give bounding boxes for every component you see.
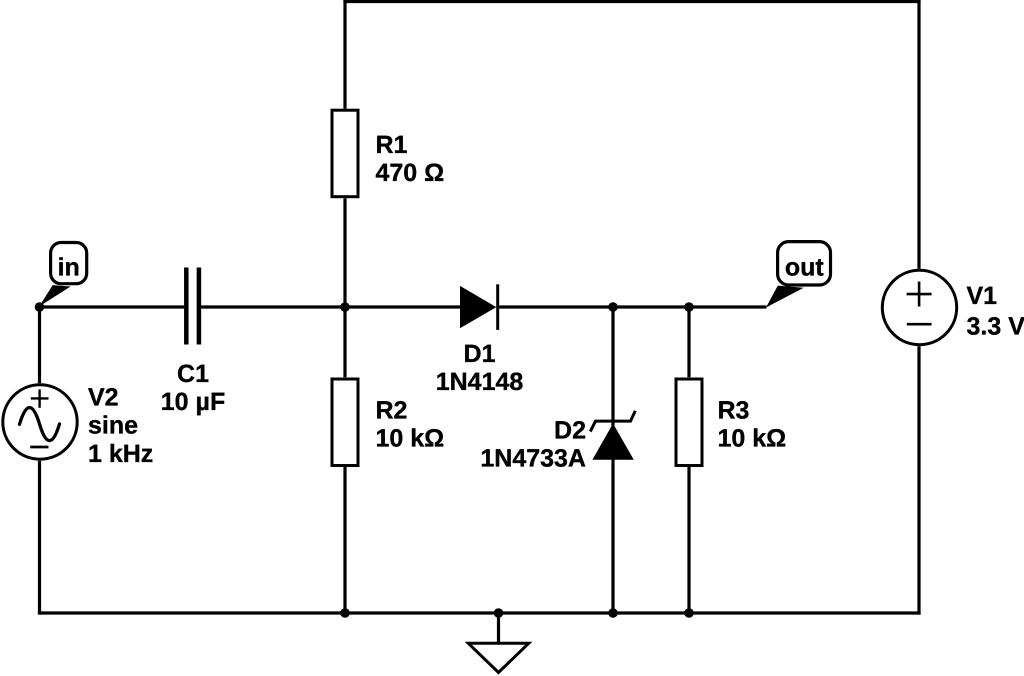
svg-text:D1: D1	[464, 340, 496, 368]
svg-text:3.3 V: 3.3 V	[967, 313, 1024, 341]
svg-text:R2: R2	[376, 396, 408, 424]
svg-text:10 kΩ: 10 kΩ	[376, 424, 445, 452]
svg-text:V2: V2	[88, 383, 119, 411]
svg-text:470 Ω: 470 Ω	[376, 159, 445, 187]
svg-text:C1: C1	[177, 360, 209, 388]
svg-text:1 kHz: 1 kHz	[88, 440, 153, 468]
svg-text:D2: D2	[554, 416, 586, 444]
svg-text:10 kΩ: 10 kΩ	[718, 424, 787, 452]
svg-text:1N4148: 1N4148	[436, 368, 524, 396]
svg-text:1N4733A: 1N4733A	[480, 444, 586, 472]
svg-text:sine: sine	[88, 411, 138, 439]
svg-text:10 µF: 10 µF	[161, 388, 225, 416]
svg-text:in: in	[58, 253, 80, 281]
svg-text:out: out	[785, 253, 825, 281]
svg-text:R1: R1	[376, 131, 408, 159]
svg-text:V1: V1	[967, 282, 998, 310]
svg-text:R3: R3	[718, 396, 750, 424]
